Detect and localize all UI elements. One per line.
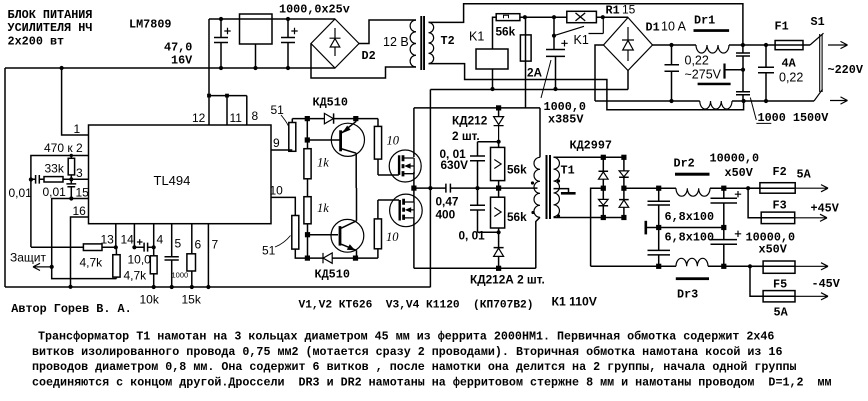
svg-text:Dr1: Dr1 [694,14,715,28]
wire F5 output arrow [795,293,828,300]
svg-text:47,0: 47,0 [164,41,192,55]
capacitor 47,0 16V electrolytic [214,19,228,68]
wire 56k to fuse node [520,16,567,18]
wire V4 source return to T1 primary bottom [414,267,536,269]
svg-text:6: 6 [195,238,202,252]
wire pin 1 [62,68,89,135]
svg-text:х385V: х385V [548,113,584,127]
T1 secondary polarity dots [557,179,560,182]
resistor 10 lower (gate) [377,249,379,258]
wire to F5 branch [750,266,763,296]
svg-text:K1: K1 [574,33,589,47]
svg-text:1k: 1k [317,156,329,170]
wire pin 7 to ground [207,224,209,287]
svg-text:9: 9 [273,136,280,150]
resistor 33k [44,177,63,182]
diode КД510 lower [322,253,324,263]
svg-text:V1,V2 КТ626 V3,V4 К1120 (КП7: V1,V2 КТ626 V3,V4 К1120 (КП707В2) [299,300,534,312]
svg-text:56k: 56k [496,25,516,39]
wire LM7809 ground pin [255,44,257,68]
wire pin 6 [191,224,193,254]
wire pin 13 [115,224,117,248]
wire +12V rail y19 (aux rectifier output) [209,18,335,20]
node HV minus to bridge mid [428,186,432,190]
wire zero volt line with chassis bar [646,227,724,229]
svg-text:1000: 1000 [172,271,189,280]
transformer T2 primary winding (12V) [410,20,416,67]
bridge rectifier D2 [311,19,359,68]
svg-text:630V: 630V [441,158,469,172]
fuse 2A [525,17,527,108]
relay contact K1 [553,17,555,36]
svg-text:15: 15 [622,3,636,17]
wire F2 output arrow [795,185,828,192]
wire minus 45V line [591,265,764,267]
svg-text:0,01: 0,01 [9,186,33,200]
resistor 15k [187,254,196,271]
svg-text:D1: D1 [646,21,660,35]
capacitor 0,22 ~275V [665,45,680,101]
svg-text:16V: 16V [171,54,193,68]
wire mains entry arrows [828,41,848,48]
svg-text:15k: 15k [182,293,202,307]
svg-text:LM7809: LM7809 [129,18,171,32]
wire pin 9 [271,149,292,151]
svg-text:1000,0х25v: 1000,0х25v [279,3,350,17]
resistor 56k (relay feed) [496,14,520,21]
wire HV plus to T1 primary top [539,108,541,157]
wire plus 45V line [624,187,760,189]
wire D1 minus corner down to minus bus [627,71,629,90]
svg-text:0,47: 0,47 [436,195,459,209]
svg-text:1000 1500V: 1000 1500V [758,111,830,125]
wire mains bottom to switch [744,100,814,102]
diode КД2997 col1 lower [599,199,609,205]
callout line to 1000,0 label [541,60,551,98]
wire V3 drain to HV plus [413,108,415,157]
capacitor 1000,0 x385V electrolytic [546,36,565,89]
svg-text:TL494: TL494 [154,173,191,188]
svg-text:~220V: ~220V [828,63,864,77]
capacitor 0,01 630V upper [470,142,499,188]
svg-text:х50V: х50V [759,243,788,257]
svg-text:8: 8 [252,109,259,123]
resistor 4,7k vertical [113,255,120,277]
wire pin 14 [133,224,135,248]
resistor 56k lower (divider) [498,188,500,197]
svg-text:2 шт.: 2 шт. [452,129,480,143]
svg-text:1k: 1k [317,201,329,215]
fuse F3 [761,212,795,224]
resistor 10 upper (gate) [377,119,379,127]
svg-text:T2: T2 [441,34,455,48]
svg-text:БЛОК ПИТАНИЯ: БЛОК ПИТАНИЯ [8,8,93,22]
svg-text:D2: D2 [362,49,376,63]
svg-text:~275V: ~275V [685,68,722,82]
resistor 56k upper (divider) [498,142,500,148]
choke Dr3 [676,258,708,266]
capacitor 0,01 lower [470,188,499,232]
wire ground rail y68 (aux supply minus) [5,67,335,69]
relay K1 coil box [476,49,508,69]
wire pin 2 [31,156,89,248]
capacitor 6,8x100 lower [648,228,671,267]
wire HV minus drop to half-bridge [429,90,431,288]
wire T2 mains top to Dr1 right node (mains line L) [429,4,743,45]
svg-text:10 A: 10 A [661,20,687,34]
svg-text:4,7k: 4,7k [124,269,148,283]
svg-text:х50V: х50V [725,166,754,180]
transistor V2 КТ626 [331,219,364,252]
transformer T1 primary winding [534,157,540,217]
wire K1 coil bottom lead [492,69,494,89]
wire V4 drain to midpoint [413,188,415,202]
svg-text:10: 10 [386,230,399,244]
svg-text:10k: 10k [140,293,160,307]
wire ground rail y287 (TL494 ground) [5,286,430,288]
wire to F3 branch [748,188,761,218]
svg-text:12: 12 [192,111,206,125]
fuse F1 [775,41,803,50]
svg-text:51: 51 [262,244,276,258]
fuse F2 [748,187,760,189]
capacitor 1000,0x25v electrolytic [281,19,295,68]
wire F3 output arrow [795,214,827,221]
svg-text:соединяются с концом другой.Др: соединяются с концом другой.Дроссели DR3… [32,375,832,389]
capacitor 0,01 (series with 33k) [31,175,44,184]
wire D2 left corner to T2 primary bottom [311,44,416,79]
svg-text:12 В: 12 В [383,35,409,49]
capacitor 10,0 electrolytic pin14-pin4 [134,243,153,252]
svg-text:Защит: Защит [10,251,46,265]
svg-text:4: 4 [157,233,164,247]
diode КД2997 col2 upper [623,157,625,171]
IC TL494 box [89,125,272,224]
svg-text:10: 10 [387,134,400,148]
svg-text:КД510: КД510 [315,268,350,282]
node K1 contact left [552,15,556,19]
wire half-bridge midpoint rail [414,187,446,189]
capacitor 0,01 pin3 to pin15 [66,179,76,198]
svg-text:K1: K1 [469,30,484,44]
node col1 mid (minus out) [601,186,606,191]
resistor 470k [68,158,74,175]
capacitor 6,8x100 upper [648,188,671,227]
wire V4 source to return line [413,218,415,268]
svg-text:51: 51 [271,103,285,117]
diode КД2997 col2 lower [619,199,629,201]
svg-text:2A: 2A [527,66,543,80]
svg-text:УСИЛИТЕЛЯ НЧ: УСИЛИТЕЛЯ НЧ [8,21,93,35]
wire mains top to F1 [743,44,775,46]
transistor V1 КТ626 [331,123,364,156]
diode inside D1 [622,27,634,61]
capacitor 10000,0 x50V lower [711,228,738,267]
T1 polarity dots [531,181,534,184]
svg-text:F2: F2 [773,165,787,179]
svg-text:470 к 2: 470 к 2 [44,141,83,155]
earth stub [725,69,744,71]
wire R1 to D1 plus corner [596,16,628,18]
svg-text:5: 5 [175,237,182,251]
regulator LM7809 box [240,14,273,44]
MOSFET V3 К1120 [389,150,421,182]
choke Dr1 bottom winding [595,100,744,102]
capacitor 0,47 400V coupling [446,184,538,193]
resistor R1 15 (inrush, box with X) [567,11,597,22]
svg-text:проводов диаметром 0,8 мм. Она: проводов диаметром 0,8 мм. Она содержит … [32,360,797,374]
wire pin15 net to 4,7k bottom [52,267,117,279]
svg-text:0, 01: 0, 01 [459,229,486,243]
fuse F4 (upper -45) [750,265,763,267]
svg-text:T1: T1 [561,164,575,178]
wire pin 4 [153,224,155,256]
wire T2 mains bottom to Dr1 right node (mains line N) [429,64,744,110]
capacitor 0,22 right [758,45,774,101]
wire secondary bottom to rectifier [554,217,624,219]
svg-text:КД2997: КД2997 [570,139,612,153]
svg-text:+45V: +45V [811,201,840,215]
svg-text:Dr2: Dr2 [674,157,695,171]
svg-text:F3: F3 [773,199,787,213]
wire pin 16 [71,217,89,287]
diode КД2997 col1 upper [599,157,609,171]
MOSFET V4 К1120 [390,194,423,227]
svg-text:56k: 56k [507,163,527,177]
wire D2 right corner to T2 primary top [359,20,416,44]
node col2 mid (plus out) [621,186,626,191]
wire node A y118.6 [292,118,324,120]
resistor 51 (upper) [289,123,296,152]
transformer T2 mains winding [429,22,434,63]
wire left vertical ground link [4,68,6,287]
protection arrow Защит [50,265,54,269]
wire V2 collector rail y258 [307,257,378,259]
svg-text:S1: S1 [811,15,825,29]
callout to Y-cap [750,98,771,124]
switch S1 [810,33,824,101]
node fuse 2A top [523,15,527,19]
svg-text:56k: 56k [507,210,527,224]
transformer T1 secondary winding [554,157,560,216]
svg-text:К1 110V: К1 110V [552,295,598,309]
wire pin 15 [52,199,89,267]
transformer T2 core [420,16,422,70]
svg-text:F5: F5 [773,278,787,292]
wire V3 source to midpoint [413,172,415,188]
choke Dr1 top winding [653,44,743,46]
wire F4 output arrow [795,263,828,270]
svg-text:R1: R1 [606,4,620,18]
wire D1 minus bus y89 [430,88,628,91]
svg-text:7: 7 [212,238,219,252]
bridge rectifier D1 [604,18,653,71]
node junction 47uF top [219,17,223,21]
wire pin 3 [63,178,89,180]
resistor 10k [150,256,157,274]
svg-text:0,22: 0,22 [685,54,709,68]
svg-text:0,22: 0,22 [779,70,803,84]
node D1 plus [601,15,605,19]
svg-text:4A: 4A [782,56,797,70]
svg-text:Автор Горев В. А.: Автор Горев В. А. [11,302,131,316]
capacitor 10000,0 x50V upper [711,188,738,227]
svg-text:КД212А 2 шт.: КД212А 2 шт. [470,273,545,287]
capacitors 1000 1500V pair with earth [736,45,750,101]
capacitor 1000 timing [165,257,179,287]
resistor 1k upper [304,149,311,179]
resistor 4,7k horizontal [83,244,102,251]
choke Dr2 [676,188,710,196]
wire minus output drop [591,188,604,266]
diode КД510 upper [324,113,333,123]
svg-text:2х200 вт: 2х200 вт [8,34,65,48]
svg-text:КД212: КД212 [452,114,488,128]
svg-text:1: 1 [74,122,81,136]
fuse F5 [763,291,795,302]
svg-text:0,01: 0,01 [43,185,67,199]
wire K1 coil top lead [493,17,497,49]
svg-text:11: 11 [230,111,243,125]
node junction 1000uF top [286,17,290,21]
svg-text:Dr3: Dr3 [677,288,698,302]
wire VCC feed from LM7809 to pins 12 11 8 [209,19,247,125]
svg-text:Трансформатор Т1 намотан на 3: Трансформатор Т1 намотан на 3 кольцах ди… [38,330,774,344]
resistor 1k lower [304,197,311,224]
svg-text:витков изолированного провода: витков изолированного провода 0,75 мм2 (… [32,345,782,359]
svg-text:15: 15 [76,186,90,200]
wire D1 left AC corner loop [595,45,604,101]
diode КД212 upper [498,108,500,117]
diode inside D2 [330,28,341,56]
svg-text:-45V: -45V [812,277,841,291]
svg-text:33k: 33k [45,162,65,176]
diode КД212А lower [494,232,504,247]
svg-text:5A: 5A [797,167,812,181]
svg-text:6,8x100: 6,8x100 [665,231,715,245]
transformer T1 core [546,155,548,219]
svg-text:КД510: КД510 [313,96,348,110]
svg-text:5A: 5A [774,306,789,320]
svg-text:F1: F1 [775,19,789,33]
svg-text:10,0: 10,0 [128,253,152,267]
svg-text:14: 14 [121,233,135,247]
wire pin 5 [171,224,173,257]
svg-text:16: 16 [73,204,87,218]
wire pin 10 [271,197,295,215]
T1 center tap to chassis [554,189,569,194]
svg-text:6,8x100: 6,8x100 [665,210,715,224]
svg-text:400: 400 [436,208,456,222]
node K1 coil to minus rail [490,87,494,91]
wire secondary top to rectifier [554,156,624,158]
svg-text:10000,0: 10000,0 [710,152,760,166]
resistor 51 (lower) [292,216,299,250]
svg-text:10: 10 [270,184,284,198]
wire T1 primary bottom lead [536,217,540,268]
svg-text:4,7k: 4,7k [80,256,104,270]
wire HV plus rail y108 [414,107,540,109]
svg-text:3: 3 [76,166,83,180]
wire V1 base feed [307,119,339,140]
